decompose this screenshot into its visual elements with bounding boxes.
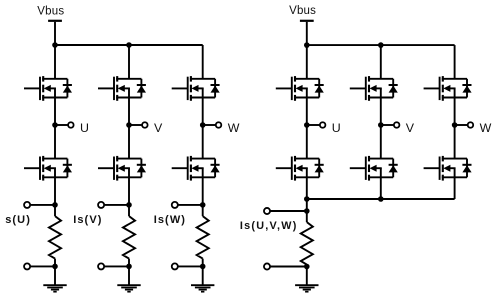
node shunt bottom U (left) [52, 264, 58, 270]
shunt resistor R4 (common) [301, 222, 313, 265]
node W phase output (left) [200, 122, 206, 128]
shunt resistor R2 (V phase) [123, 216, 135, 259]
wire shunt lower stub V (left) [128, 259, 130, 267]
wire drain of low-side U (left) [54, 125, 56, 159]
wire source of low-side U (left) [54, 177, 56, 205]
node W phase output (right) [452, 122, 458, 128]
wire to U output terminal (left) [55, 124, 68, 126]
shunt resistor R3 (W phase) [197, 216, 209, 259]
svg-text:W: W [480, 121, 492, 135]
wire shunt lower stub W (left) [202, 259, 204, 267]
wire drain of low-side V (right) [380, 125, 382, 159]
terminal U output (right) [320, 122, 326, 128]
wire drain of low-side U (right) [306, 125, 308, 159]
svg-text:V: V [406, 121, 415, 135]
node shunt bottom W (left) [200, 264, 206, 270]
node shunt top V (left) [126, 202, 132, 208]
svg-text:W: W [228, 121, 240, 135]
terminal shunt-top sense V (left) [98, 202, 104, 208]
wire source of high-side U (left) [54, 98, 56, 126]
Vbus supply bar symbol (right) [300, 20, 314, 22]
svg-text:Is(U,V,W): Is(U,V,W) [240, 220, 298, 232]
terminal V output (left) [142, 122, 148, 128]
wire drain of high-side W (left) [202, 45, 204, 79]
node V phase output (right) [378, 122, 384, 128]
wire to W output terminal (right) [455, 124, 468, 126]
svg-text:Is(W): Is(W) [154, 214, 186, 226]
body diode of Q8 right V high-side [389, 79, 398, 98]
ground U shunt (left) [43, 266, 66, 291]
terminal shunt-bottom sense W (left) [172, 263, 178, 269]
wire drain of high-side V (left) [128, 45, 130, 79]
wire source bus to shunt (right) [306, 199, 308, 211]
ground V shunt (left) [117, 266, 140, 291]
wire common source bus (right) [307, 198, 455, 200]
junction source bus / U leg (right) [304, 196, 310, 202]
transistor Q11 right V low-side (N-MOSFET) [350, 156, 393, 181]
wire source of low-side V (left) [128, 177, 130, 205]
node shunt top (right) [304, 208, 310, 214]
svg-text:s(U): s(U) [5, 214, 31, 226]
wire shunt-top sense lead U (left) [31, 204, 55, 206]
wire source of high-side V (left) [128, 98, 130, 126]
wire source of high-side U (right) [306, 98, 308, 126]
wire Vbus stub (left) [54, 22, 56, 45]
terminal shunt-top sense U (left) [24, 202, 30, 208]
terminal shunt-bottom sense V (left) [98, 263, 104, 269]
junction source bus / V leg (right) [378, 196, 384, 202]
shunt resistor R1 (U phase) [49, 216, 61, 259]
wire drain of low-side V (left) [128, 125, 130, 159]
wire shunt lower stub U (left) [54, 259, 56, 267]
node shunt bottom (right) [304, 264, 310, 270]
wire drain of high-side W (right) [454, 45, 456, 79]
node U phase output (right) [304, 122, 310, 128]
wire to V output terminal (left) [129, 124, 142, 126]
wire shunt-top sense lead (right) [271, 210, 307, 212]
body diode of Q3 left W high-side [211, 79, 220, 98]
wire shunt-top sense lead W (left) [178, 204, 202, 206]
node shunt bottom V (left) [126, 264, 132, 270]
body diode of Q11 right V low-side [389, 159, 398, 178]
Vbus supply bar symbol (left) [48, 20, 62, 22]
terminal W output (left) [216, 122, 222, 128]
transistor Q3 left W high-side (N-MOSFET) [172, 76, 215, 101]
body diode of Q6 left W low-side [211, 159, 220, 178]
svg-text:U: U [332, 121, 341, 135]
body diode of Q7 right U high-side [315, 79, 324, 98]
wire to V output terminal (right) [381, 124, 394, 126]
node V phase output (left) [126, 122, 132, 128]
node shunt top U (left) [52, 202, 58, 208]
transistor Q7 right U high-side (N-MOSFET) [276, 76, 319, 101]
wire source of high-side V (right) [380, 98, 382, 126]
wire to W output terminal (left) [203, 124, 216, 126]
svg-text:Is(V): Is(V) [73, 214, 102, 226]
transistor Q6 left W low-side (N-MOSFET) [172, 156, 215, 181]
wire shunt-bottom sense lead W (left) [178, 265, 202, 267]
ground W shunt (left) [191, 266, 214, 291]
transistor Q12 right W low-side (N-MOSFET) [424, 156, 467, 181]
ground common shunt (right) [295, 267, 318, 292]
body diode of Q2 left V high-side [137, 79, 146, 98]
body diode of Q5 left V low-side [137, 159, 146, 178]
svg-text:V: V [154, 121, 163, 135]
wire shunt upper stub W (left) [202, 205, 204, 216]
junction top bus / U leg (left) [52, 42, 58, 48]
wire shunt-bottom sense lead V (left) [105, 265, 129, 267]
terminal shunt-bottom sense U (left) [24, 263, 30, 269]
junction top bus / U leg (right) [304, 42, 310, 48]
body diode of Q1 left U high-side [63, 79, 72, 98]
transistor Q1 left U high-side (N-MOSFET) [24, 76, 67, 101]
terminal W output (right) [468, 122, 474, 128]
svg-text:Vbus: Vbus [289, 5, 316, 17]
wire source of low-side W (right) [454, 177, 456, 199]
transistor Q8 right V high-side (N-MOSFET) [350, 76, 393, 101]
wire shunt-top sense lead V (left) [105, 204, 129, 206]
body diode of Q9 right W high-side [462, 79, 471, 98]
wire drain of high-side U (right) [306, 45, 308, 79]
wire drain of low-side W (right) [454, 125, 456, 159]
transistor Q10 right U low-side (N-MOSFET) [276, 156, 319, 181]
wire Vbus stub (right) [306, 22, 308, 45]
wire drain of high-side U (left) [54, 45, 56, 79]
wire shunt-bottom sense lead U (left) [31, 265, 55, 267]
transistor Q9 right W high-side (N-MOSFET) [424, 76, 467, 101]
terminal shunt-top sense W (left) [172, 202, 178, 208]
wire to U output terminal (right) [307, 124, 320, 126]
transistor Q2 left V high-side (N-MOSFET) [98, 76, 141, 101]
wire shunt upper stub U (left) [54, 205, 56, 216]
wire source of high-side W (right) [454, 98, 456, 126]
body diode of Q12 right W low-side [462, 159, 471, 178]
node shunt top W (left) [200, 202, 206, 208]
wire source of high-side W (left) [202, 98, 204, 126]
svg-text:U: U [80, 121, 89, 135]
wire top DC bus (left) [55, 44, 203, 46]
terminal U output (left) [68, 122, 74, 128]
wire shunt lower stub (right) [306, 265, 308, 267]
wire drain of high-side V (right) [380, 45, 382, 79]
junction top bus / V leg (right) [378, 42, 384, 48]
wire source of low-side W (left) [202, 177, 204, 205]
transistor Q5 left V low-side (N-MOSFET) [98, 156, 141, 181]
svg-text:Vbus: Vbus [37, 5, 64, 17]
wire source of low-side U (right) [306, 177, 308, 199]
body diode of Q10 right U low-side [315, 159, 324, 178]
junction top bus / V leg (left) [126, 42, 132, 48]
wire shunt upper stub V (left) [128, 205, 130, 216]
wire top DC bus (right) [307, 44, 455, 46]
wire shunt upper stub (right) [306, 211, 308, 222]
transistor Q4 left U low-side (N-MOSFET) [24, 156, 67, 181]
wire shunt-bottom sense lead (right) [271, 266, 307, 268]
terminal shunt-top sense (right) [264, 208, 270, 214]
terminal shunt-bottom sense (right) [264, 263, 270, 269]
terminal V output (right) [394, 122, 400, 128]
wire drain of low-side W (left) [202, 125, 204, 159]
wire source of low-side V (right) [380, 177, 382, 199]
node U phase output (left) [52, 122, 58, 128]
body diode of Q4 left U low-side [63, 159, 72, 178]
